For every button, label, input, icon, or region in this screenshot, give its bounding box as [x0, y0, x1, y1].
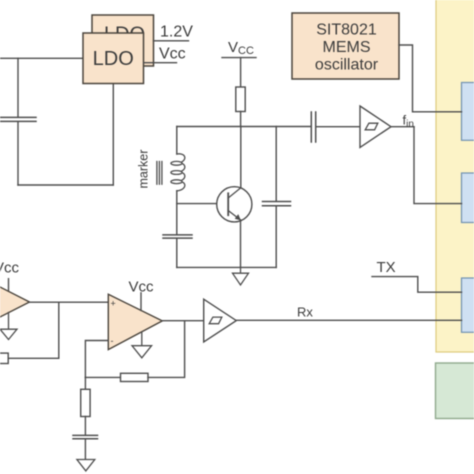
svg-text:marker: marker [137, 150, 151, 189]
LDO U1 (front box) [83, 33, 144, 84]
buffer U3 (Schmitt) [360, 106, 391, 147]
capacitor C3 [263, 201, 291, 203]
wire (C1 down to bottom rail) [17, 122, 19, 185]
wire (emitter down to rail) [240, 220, 242, 267]
LDO U2 (back box) [92, 15, 154, 66]
wire (collector up to rail) [240, 127, 242, 188]
pin block 3 [462, 278, 474, 332]
svg-text:TX: TX [377, 259, 396, 276]
wire (oscillator output into pin block 1) [399, 45, 462, 112]
SIT8021 MEMS oscillator U4 [292, 13, 399, 79]
svg-text:+: + [111, 299, 116, 309]
power Vcc (oscillator supply) [222, 39, 256, 87]
wire (L1 down through base node) [176, 191, 178, 235]
wire (top rail) [177, 126, 311, 128]
svg-text:SIT8021: SIT8021 [316, 22, 377, 39]
wire (bottom-left rail) [18, 184, 113, 186]
resistor R4 [81, 389, 90, 416]
ground (op-amp U5) [0, 313, 17, 340]
wire (C5 to ground) [84, 439, 86, 459]
wire TX (into pin block 3) [372, 277, 462, 293]
wire (down from inverting node to R4) [84, 377, 86, 389]
svg-text:MEMS: MEMS [323, 39, 371, 56]
svg-text:Vcc: Vcc [0, 260, 20, 277]
hysteresis glyph [209, 317, 222, 324]
svg-text:-: - [111, 336, 114, 346]
wire (down to C1) [17, 58, 19, 117]
op-amp U6 [108, 294, 162, 349]
resistor R2 (feedback, clipped at edge) [0, 353, 8, 363]
svg-text:Rx: Rx [297, 305, 313, 320]
inductor L1 [171, 154, 185, 191]
wire (buffer output) [391, 126, 414, 128]
power Vcc (op-amp U5) [0, 260, 20, 291]
buffer U7 [204, 299, 237, 342]
transistor Q1 [217, 187, 252, 222]
wire (feedback bottom right, up to output) [148, 321, 185, 378]
wire (R2 feedback to output node) [8, 302, 59, 358]
wire (R1 to top rail) [240, 112, 242, 127]
wire (C4 to buffer) [316, 126, 360, 128]
panel (yellow MCU region) [436, 0, 474, 352]
wire (U6 output to buffer U7) [162, 320, 203, 322]
wire (C2 to bottom rail) [176, 238, 178, 267]
wire (right cap branch lower) [275, 206, 277, 267]
svg-text:LDO: LDO [93, 48, 134, 70]
svg-text:fin: fin [403, 113, 414, 131]
wire (oscillator bottom rail) [177, 266, 276, 268]
capacitor C4 (series coupling) [310, 112, 312, 142]
pin block 2 [462, 173, 474, 223]
module (green block) [436, 363, 474, 419]
op-amp U5 [0, 275, 30, 330]
resistor R3 (feedback) [121, 373, 149, 381]
capacitor C1 [0, 116, 36, 118]
ground (oscillator) [233, 267, 249, 285]
svg-text:Vcc: Vcc [159, 46, 186, 63]
wire (rail down to L1) [176, 127, 178, 155]
capacitor C5 [73, 434, 98, 436]
svg-text:oscillator: oscillator [315, 57, 379, 74]
ground (bottom left) [77, 460, 95, 471]
svg-text:VCC: VCC [228, 39, 254, 57]
hysteresis glyph [365, 123, 378, 130]
wire (1.2V stub) [154, 40, 189, 42]
resistor R1 [236, 87, 245, 112]
wire (base tap) [177, 203, 217, 205]
wire (U6 inverting input) [85, 341, 108, 378]
wire Rx (to pin block 3) [236, 319, 461, 321]
wire (Vcc stub) [144, 62, 177, 64]
wire (U5 output to U6 + input) [30, 301, 109, 303]
ground (op-amp U6) [132, 332, 152, 358]
svg-text:1.2V: 1.2V [160, 24, 193, 41]
wire (fin down and into pin block 2) [414, 127, 462, 204]
wire (R4 to C5) [84, 417, 86, 436]
pin block 1 [462, 83, 474, 141]
wire (LDO bottom down) [112, 84, 114, 186]
wire (right cap branch upper) [275, 127, 277, 202]
capacitor C2 [163, 234, 192, 236]
core marker lines [157, 162, 162, 185]
wire (feedback bottom left) [85, 376, 120, 378]
power Vcc (op-amp U6) [129, 279, 155, 311]
wire (top-left horizontal to LDO) [0, 57, 83, 59]
